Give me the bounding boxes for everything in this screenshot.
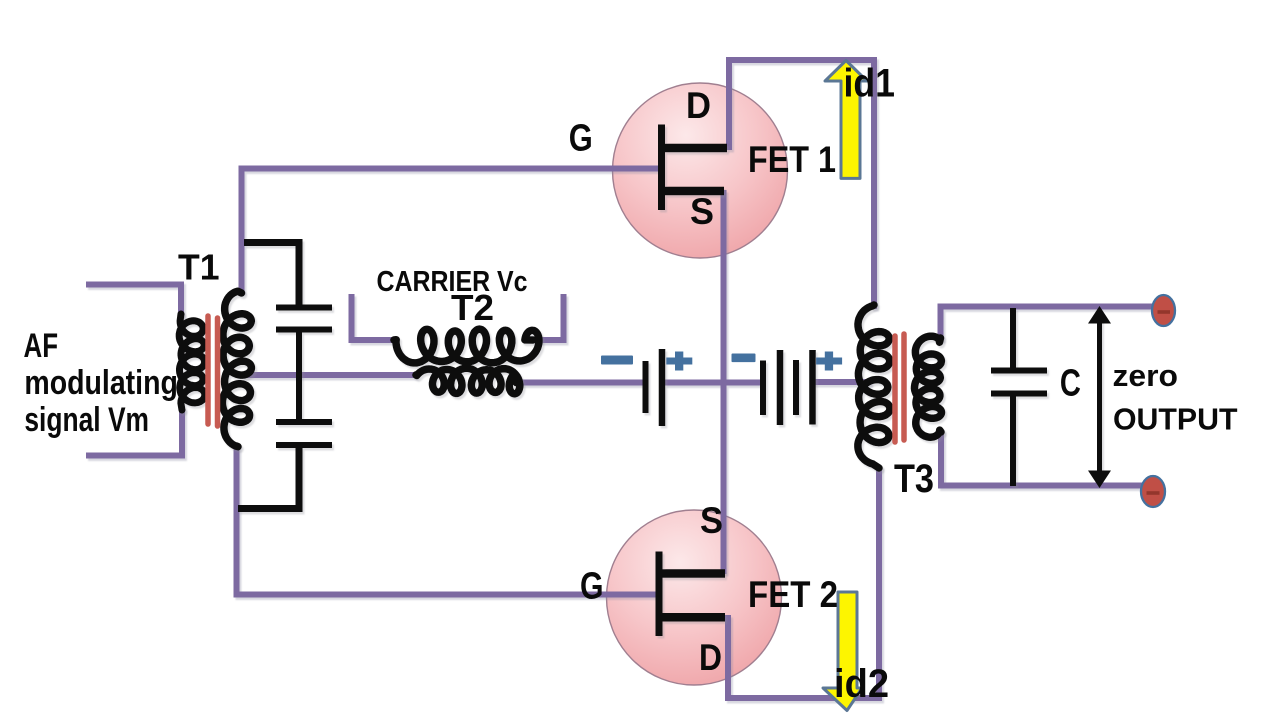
transformer T1 primary coil [179,314,205,410]
wire T3 secondary top to output [941,307,1154,342]
transformer T3 primary coil [858,305,890,468]
transformer T1 secondary coil [222,291,251,447]
transformer T2 primary coil [394,329,539,363]
svg-text:G: G [569,118,593,160]
wire battery B1 to battery B2 [665,380,762,386]
FET2 gate bar [656,552,663,637]
wire FET1 source to FET2 source [721,190,727,574]
svg-text:D: D [699,637,722,678]
output span arrow head bottom [1088,471,1111,489]
svg-text:AF: AF [24,327,59,365]
wire FET2 drain to bottom rail to T3 primary bottom [728,466,879,698]
wire capacitor branch bottom (black) [238,446,299,509]
output span arrow head top [1088,306,1111,324]
current arrow id2 (yellow) [823,592,862,711]
wire T3 secondary bottom to output [941,430,1142,486]
svg-text:zero: zero [1113,358,1179,393]
svg-text:FET 2: FET 2 [748,574,838,615]
wire T2 left bracket [352,294,396,340]
transformer T2 secondary coil [416,368,520,394]
wire FET1 drain to top rail to T3 primary top [729,60,874,309]
transformer T3 core line 2 [901,334,907,440]
svg-text:C: C [1060,363,1081,405]
FET1 gate bar [658,125,665,211]
capacitor C lead top [1010,308,1016,368]
FET 2 body circle [607,510,782,685]
transformer T3 secondary coil [915,336,942,437]
wire T2 right bracket [532,294,564,340]
battery B2 plate 2 [777,350,784,425]
label AF modulating signal Vm [24,327,178,439]
wire T1 secondary bottom to FET2 gate [237,444,660,595]
svg-text:S: S [690,191,714,232]
battery B1 negative plate [643,361,649,413]
transformer T1 core line 1 [205,316,211,424]
wire T1 secondary top to FET1 gate [242,169,662,294]
capacitor C2 top plate [276,419,332,425]
svg-text:signal Vm: signal Vm [24,401,149,439]
current arrow id1 (yellow) [825,61,867,179]
svg-text:T1: T1 [178,247,220,288]
svg-text:FET 1: FET 1 [748,139,836,180]
battery B1 positive plate [659,349,666,426]
battery B2 plate 4 [809,350,816,425]
svg-text:modulating: modulating [24,364,178,402]
svg-text:S: S [700,500,723,541]
capacitor C1 top plate [276,305,332,311]
svg-text:id1: id1 [844,62,896,106]
battery B2 plate 3 [793,360,799,415]
svg-text:OUTPUT: OUTPUT [1113,402,1238,437]
FET2 source bar [663,569,726,578]
wire T1 centre tap to T2 secondary [242,372,417,378]
wire input bottom-left [86,408,182,456]
wire T2 secondary to battery B1 [515,380,643,386]
battery B2 plate 1 [760,361,766,416]
battery B2 minus sign [732,354,756,363]
svg-text:id2: id2 [834,662,889,706]
FET1 source bar [663,187,724,196]
capacitor C2 bottom plate [276,442,332,448]
svg-text:D: D [686,85,711,126]
battery B1 minus sign [601,356,633,365]
capacitor C top plate [991,368,1047,374]
battery B2 plus sign [816,352,842,371]
wire between capacitors (black) [296,331,302,420]
transformer T1 core line 2 [215,318,221,426]
output terminal top [1152,295,1175,326]
wire capacitor branch top (black) [244,243,299,306]
transformer T3 core line 1 [892,336,898,442]
FET 1 body circle [613,83,788,258]
svg-text:T2: T2 [451,287,494,328]
capacitor C bottom plate [991,391,1047,397]
FET2 drain bar [663,613,726,622]
svg-text:T3: T3 [894,457,934,501]
svg-text:G: G [580,566,604,608]
capacitor C lead bottom [1010,396,1016,486]
output span arrow line [1097,318,1102,476]
capacitor C1 bottom plate [276,327,332,333]
wire input top-left [86,285,181,318]
wire battery B2 to T3 centre tap [812,379,871,385]
battery B1 plus sign [666,352,692,371]
output terminal bottom [1141,476,1165,507]
FET1 drain bar [663,144,727,153]
